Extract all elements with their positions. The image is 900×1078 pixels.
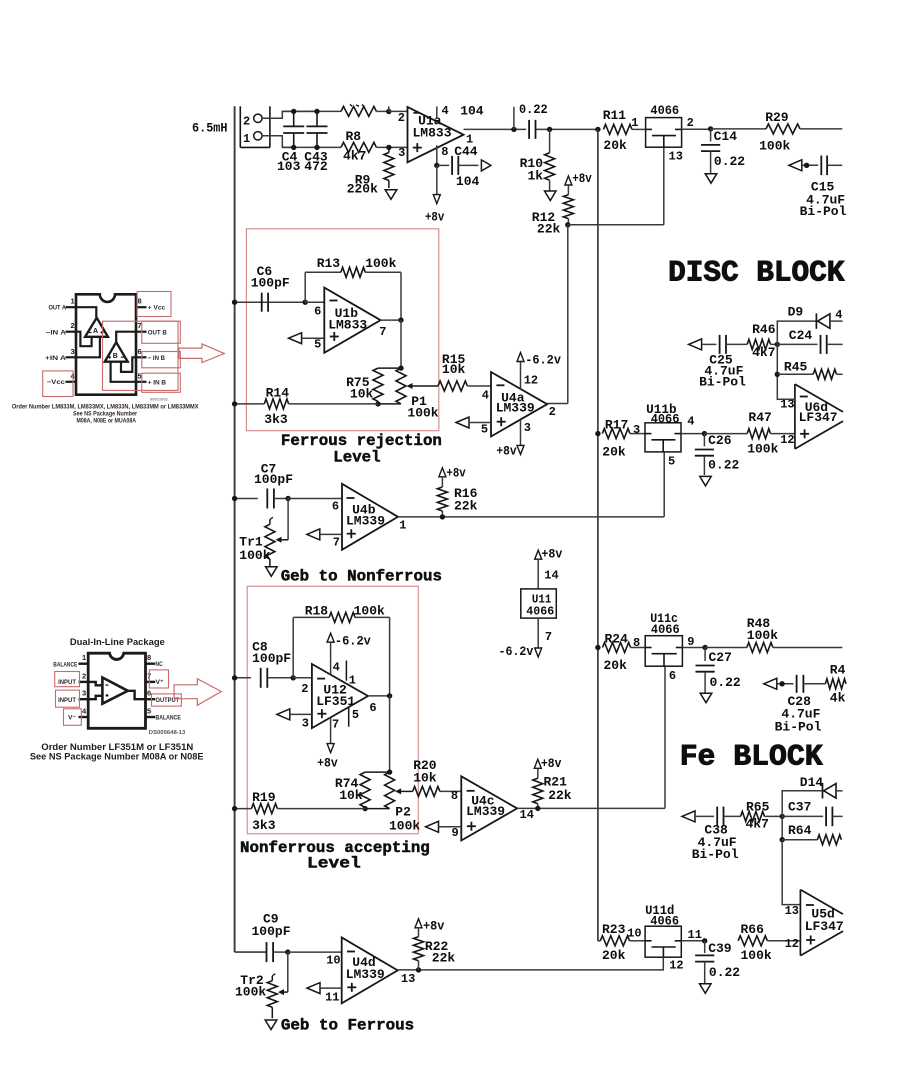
resistor R9 (347, 145, 394, 197)
svg-text:−Vᴄᴄ: −Vᴄᴄ (47, 379, 65, 386)
capacitor C9 (252, 912, 291, 963)
wire U4a output rise (547, 225, 568, 404)
resistor R11 (603, 108, 646, 153)
svg-text:100pF: 100pF (251, 275, 290, 290)
svg-text:A: A (93, 328, 98, 335)
svg-text:R29: R29 (765, 110, 789, 125)
svg-text:472: 472 (304, 159, 328, 174)
svg-text:R18: R18 (305, 604, 329, 619)
op-amp U4c (451, 776, 534, 840)
svg-text:4: 4 (442, 104, 449, 118)
capacitor C37 (782, 799, 842, 826)
resistor R15 (438, 352, 491, 391)
svg-text:1: 1 (82, 653, 86, 662)
svg-text:See NS Package Number M08A or: See NS Package Number M08A or N08E (30, 752, 204, 763)
capacitor C38 group (682, 807, 741, 862)
ground below R9 (385, 190, 397, 200)
svg-text:20k: 20k (602, 948, 626, 963)
svg-text:LM339: LM339 (346, 513, 385, 528)
svg-text:8: 8 (451, 789, 458, 803)
wire pin1 to bottom rail (262, 136, 294, 148)
trimmer Tr1 (239, 499, 288, 568)
resistor R75 (346, 368, 401, 401)
op-amp U5d (clipped) (785, 890, 844, 956)
supply -6.2v above U4a (517, 352, 561, 389)
svg-text:M08A, N08E or MUA08A: M08A, N08E or MUA08A (77, 418, 137, 425)
svg-text:Geb to Ferrous: Geb to Ferrous (281, 1016, 414, 1034)
switch U11b 4066 (645, 402, 695, 452)
IC package body LM833 (76, 294, 136, 394)
node U1a out to bus (595, 127, 600, 132)
svg-text:2: 2 (549, 405, 556, 419)
svg-text:+8v: +8v (496, 443, 516, 458)
wire U4c output (517, 807, 665, 809)
svg-text:−IN A: −IN A (46, 330, 67, 337)
svg-text:10k: 10k (442, 362, 466, 377)
svg-text:22k: 22k (454, 499, 478, 514)
wire U11a out (682, 128, 711, 130)
wire U12 output (368, 693, 392, 698)
svg-text:+8v: +8v (541, 756, 562, 771)
svg-text:5: 5 (668, 455, 675, 469)
svg-text:+8v: +8v (423, 919, 444, 934)
svg-text:LF347: LF347 (805, 919, 844, 934)
svg-text:C27: C27 (709, 650, 732, 665)
label Nonferrous accepting (240, 839, 430, 873)
svg-text:Dual-In-Line Package: Dual-In-Line Package (70, 637, 165, 648)
pin 3 left (79, 698, 89, 700)
ground below Tr1 (266, 567, 278, 577)
svg-text:D9: D9 (788, 305, 804, 320)
svg-text:22k: 22k (432, 951, 456, 966)
svg-text:100k: 100k (759, 138, 790, 153)
svg-text:4: 4 (333, 661, 340, 675)
svg-text:Order Number LM833M, LM833MX,: Order Number LM833M, LM833MX, LM833N, LM… (12, 404, 199, 411)
wire U4b out to U11b control (664, 452, 675, 517)
svg-text:BALANCE: BALANCE (53, 662, 77, 669)
pin 5 right (136, 381, 147, 383)
arrow right of C44 (481, 160, 491, 171)
wire output to P2 (387, 696, 392, 775)
annotation red arrow LF351 (174, 679, 221, 706)
svg-text:+8v: +8v (317, 755, 338, 770)
op-amp U1b (314, 288, 386, 353)
svg-text:INPUT: INPUT (58, 697, 76, 704)
annotation red box OUTPUT6 (152, 694, 182, 706)
resistor R48 (705, 616, 842, 652)
node with stub 0.22 input (511, 107, 516, 132)
svg-text:+8v: +8v (446, 465, 465, 480)
capacitor C8 (232, 640, 293, 688)
resistor R23 (598, 922, 645, 963)
svg-text:7: 7 (333, 536, 340, 550)
svg-text:100k: 100k (747, 442, 778, 457)
resistor R66 (738, 922, 800, 963)
pin 4 left (66, 381, 77, 383)
annotation red box INPUT3 (56, 690, 80, 707)
wire R12 to 4066 control (565, 147, 683, 227)
pin 2 left (79, 681, 89, 683)
capacitor C27 (696, 648, 741, 693)
wiper P1 (407, 383, 439, 389)
svg-text:LM833: LM833 (328, 318, 367, 333)
svg-text:10: 10 (627, 927, 641, 941)
svg-text:100k: 100k (239, 548, 270, 563)
wire pin2 to A minus (76, 332, 92, 347)
svg-text:C39: C39 (708, 941, 732, 956)
arrow U12 pin3 (277, 709, 312, 720)
capacitor C14 (701, 126, 745, 174)
svg-text:+8v: +8v (572, 171, 592, 186)
arrow U4b pin7 (307, 529, 342, 540)
svg-text:2: 2 (71, 321, 75, 330)
node C7 junction (285, 496, 342, 501)
capacitor 0.22 series (519, 102, 598, 139)
svg-text:BALANCE: BALANCE (156, 715, 181, 722)
wire B output to pin7 (116, 332, 136, 343)
svg-text:5: 5 (147, 707, 151, 716)
internal op-amp A (85, 318, 108, 337)
svg-text:6: 6 (147, 689, 151, 698)
svg-text:12: 12 (780, 433, 794, 447)
pin 4 left (79, 716, 89, 718)
svg-text:2: 2 (398, 111, 405, 125)
svg-text:3: 3 (302, 717, 309, 731)
svg-text:14: 14 (520, 808, 534, 822)
capacitor C43 (304, 109, 328, 174)
resistor R74 (335, 772, 390, 807)
wire U1a pin 8 (434, 145, 448, 168)
svg-text:13: 13 (669, 150, 683, 164)
pin 5 stub (348, 707, 350, 727)
svg-text:8: 8 (138, 297, 142, 306)
capacitor C28 group (764, 675, 826, 735)
internal op-amp (102, 678, 127, 704)
diode D14 (782, 775, 842, 817)
svg-text:+ IN B: + IN B (148, 379, 167, 386)
svg-text:20k: 20k (603, 138, 627, 153)
svg-text:Fe BLOCK: Fe BLOCK (680, 740, 823, 774)
svg-text:R66: R66 (741, 922, 765, 937)
svg-text:100k: 100k (747, 628, 778, 643)
svg-text:100k: 100k (407, 406, 438, 421)
svg-text:4: 4 (82, 707, 87, 716)
svg-text:4k7: 4k7 (752, 345, 775, 360)
resistor R24 (595, 631, 645, 673)
svg-text:R46: R46 (752, 322, 776, 337)
capacitor C15 group (789, 156, 847, 220)
svg-text:5: 5 (138, 371, 142, 380)
svg-text:LM339: LM339 (496, 401, 535, 416)
supply +8v below pin 8 (425, 165, 444, 224)
svg-text:LM339: LM339 (466, 804, 505, 819)
svg-text:+8v: +8v (541, 547, 562, 562)
supply -6.2v above U12 (327, 633, 371, 675)
resistor R45 (775, 344, 843, 379)
svg-text:5: 5 (352, 708, 359, 722)
svg-text:V⁻: V⁻ (68, 715, 76, 722)
svg-text:DISC BLOCK: DISC BLOCK (668, 256, 844, 290)
svg-text:100k: 100k (354, 604, 385, 619)
svg-text:LM339: LM339 (346, 967, 385, 982)
svg-text:LM833: LM833 (413, 125, 452, 140)
svg-text:4: 4 (687, 414, 694, 428)
arrow U4c pin9 (426, 821, 462, 832)
svg-text:1k: 1k (528, 169, 544, 184)
capacitor C6 (232, 264, 305, 312)
svg-text:2: 2 (301, 682, 308, 696)
wire U11d control to U4d out (419, 957, 664, 970)
resistor R65 (741, 799, 785, 831)
svg-text:R45: R45 (784, 360, 808, 375)
resistor R13 feedback (305, 256, 401, 320)
wire pin6 to B minus (121, 357, 136, 372)
pin 4 stub (436, 106, 438, 119)
potentiometer P2 (362, 772, 420, 834)
svg-text:100k: 100k (235, 984, 266, 999)
resistor R46 (747, 322, 780, 360)
supply +8v below U4a (496, 420, 524, 459)
connector J1 coil 6.5mH (240, 106, 270, 147)
svg-text:0.22: 0.22 (710, 675, 741, 690)
svg-text:OUT A: OUT A (49, 305, 67, 312)
pin 1 left (66, 306, 77, 308)
capacitor C26 (695, 433, 740, 475)
switch U11d 4066 (645, 903, 702, 972)
svg-text:0.22: 0.22 (714, 154, 745, 169)
svg-text:OUTPUT: OUTPUT (156, 697, 180, 704)
svg-text:4066: 4066 (651, 411, 680, 426)
wire pin3 to plus (88, 696, 102, 699)
annotation red box +Vcc (137, 292, 171, 317)
svg-text:12: 12 (669, 959, 683, 973)
svg-text:3: 3 (398, 146, 405, 160)
svg-text:INPUT: INPUT (58, 679, 76, 686)
wire top rail (282, 110, 341, 112)
op-amp U6d (clipped) (780, 384, 843, 449)
svg-text:4: 4 (835, 308, 842, 322)
node top-rail stub (386, 106, 407, 114)
svg-text:− IN B: − IN B (148, 355, 166, 362)
svg-text:R17: R17 (605, 418, 628, 433)
svg-text:2: 2 (687, 116, 694, 130)
wire mid bus (597, 129, 599, 941)
svg-text:LF347: LF347 (799, 410, 838, 425)
wire U1b output (381, 317, 404, 322)
wire output to pot (398, 320, 403, 371)
svg-text:7: 7 (138, 321, 142, 330)
op-amp U1a (398, 104, 473, 162)
switch U11c 4066 (645, 611, 694, 666)
pin 2 left (66, 331, 77, 333)
svg-text:1: 1 (71, 297, 75, 306)
resistor R7 (label cut off) (341, 104, 389, 116)
wire pin2 to minus (88, 682, 102, 685)
resistor R14 (232, 385, 378, 427)
svg-text:C44: C44 (454, 144, 478, 159)
svg-text:100pF: 100pF (252, 651, 291, 666)
arrow U1b pin5 (289, 333, 325, 344)
svg-text:6: 6 (332, 500, 339, 514)
pin 1 stub (345, 661, 347, 681)
annotation red box INPUT2 (55, 672, 80, 687)
capacitor C39 (695, 941, 740, 985)
svg-text:103: 103 (277, 159, 301, 174)
svg-text:V⁺: V⁺ (156, 679, 164, 686)
svg-text:4: 4 (482, 388, 489, 402)
ground below C27 (700, 693, 712, 703)
svg-text:3: 3 (71, 347, 75, 356)
svg-text:1: 1 (243, 132, 250, 146)
wire C14 to R29 (711, 128, 766, 130)
svg-text:R47: R47 (748, 410, 771, 425)
pin 7 right (146, 681, 156, 683)
svg-text:1: 1 (631, 116, 638, 130)
datasheet figure LM833 DIP (12, 292, 224, 425)
svg-text:100pF: 100pF (252, 924, 291, 939)
pin 3 left (66, 356, 77, 358)
label 6.5mH (192, 121, 228, 136)
svg-text:7: 7 (545, 630, 552, 644)
svg-text:2: 2 (82, 671, 86, 680)
wire pin2 to top rail (262, 111, 317, 118)
svg-text:R13: R13 (317, 256, 341, 271)
wire output to pin6 (128, 691, 146, 699)
resistor R64 (780, 816, 842, 844)
pin 6 right (136, 356, 147, 358)
label Fe BLOCK (680, 740, 823, 774)
resistor R49 (clipped) (825, 663, 846, 706)
capacitor C24 (777, 328, 842, 354)
svg-text:R24: R24 (605, 631, 629, 646)
svg-text:C26: C26 (708, 433, 732, 448)
svg-text:8: 8 (633, 636, 640, 650)
resistor R21 (533, 756, 572, 811)
wire U6d pin13 input (777, 374, 795, 399)
wire U11b out (681, 431, 707, 436)
annotation red box +IN B (142, 373, 181, 392)
svg-text:4k: 4k (830, 691, 846, 706)
svg-text:1: 1 (399, 518, 406, 532)
svg-text:R8: R8 (346, 129, 362, 144)
resistor R16 (437, 465, 477, 519)
svg-text:LF351: LF351 (316, 694, 355, 709)
resistor R10 (520, 127, 555, 193)
svg-text:12: 12 (785, 937, 799, 951)
svg-text:100k: 100k (741, 948, 772, 963)
capacitor C7 (232, 461, 293, 508)
svg-text:P2: P2 (395, 804, 411, 819)
diode D9 (777, 305, 842, 345)
svg-text:DS005648-13: DS005648-13 (149, 730, 186, 736)
svg-text:R64: R64 (788, 823, 812, 838)
svg-text:0.22: 0.22 (519, 102, 548, 117)
svg-text:5: 5 (314, 338, 321, 352)
svg-text:6: 6 (369, 701, 376, 715)
svg-text:7: 7 (379, 325, 386, 339)
svg-text:20k: 20k (604, 658, 628, 673)
wire U1a output (464, 128, 527, 130)
resistor R22 (414, 919, 456, 970)
svg-text:5: 5 (481, 423, 488, 437)
svg-text:Level: Level (307, 855, 361, 873)
svg-text:+ Vᴄᴄ: + Vᴄᴄ (148, 305, 166, 312)
svg-text:8: 8 (147, 653, 151, 662)
svg-text:4066: 4066 (651, 622, 680, 637)
resistor R47 (704, 410, 795, 457)
annotation red arrow (179, 344, 224, 363)
svg-text:6: 6 (669, 669, 676, 683)
svg-text:Bi-Pol: Bi-Pol (800, 204, 847, 219)
svg-text:4k7: 4k7 (746, 817, 769, 832)
resistor R20 (413, 758, 462, 796)
pin 6 right (146, 698, 156, 700)
svg-text:C24: C24 (789, 328, 813, 343)
svg-text:100pF: 100pF (254, 472, 293, 487)
svg-text:R4: R4 (830, 663, 846, 678)
svg-text:3: 3 (633, 423, 640, 437)
svg-text:6: 6 (314, 304, 321, 318)
svg-text:4066: 4066 (526, 605, 554, 619)
svg-text:7: 7 (332, 717, 339, 731)
node U1b minus input (303, 300, 325, 305)
svg-text:1: 1 (349, 674, 356, 688)
annotation red box B section (103, 321, 179, 390)
svg-text:14: 14 (544, 569, 558, 583)
annotation red box -IN B (142, 352, 181, 368)
wire U11c out (682, 645, 707, 650)
svg-text:3: 3 (82, 689, 86, 698)
switch U11a 4066 (631, 103, 694, 147)
svg-text:3: 3 (524, 421, 531, 435)
annotation red box V-4 (64, 709, 82, 726)
svg-text:Bi-Pol: Bi-Pol (699, 374, 746, 389)
IC U11 4066 power pins (499, 547, 563, 660)
svg-text:13: 13 (785, 904, 799, 918)
ground below R10 (545, 191, 557, 201)
svg-text:104: 104 (456, 174, 480, 189)
resistor R18 feedback (291, 604, 390, 696)
annotation red box OUT B (142, 321, 181, 343)
label Geb to Nonferrous (281, 567, 442, 585)
pin 7 right (136, 331, 147, 333)
annotation red box ferrous (246, 229, 438, 431)
supply +8v below U12 (317, 718, 338, 771)
label Ferrous rejection (281, 432, 442, 467)
svg-text:6: 6 (138, 347, 142, 356)
resistor R8 (341, 129, 408, 163)
capacitor C44 (437, 144, 480, 189)
resistor R12 (532, 185, 574, 236)
wire bottom rail (282, 146, 341, 148)
wire pin5 to B plus (111, 362, 136, 382)
svg-text:C37: C37 (788, 799, 811, 814)
svg-text:22k: 22k (548, 788, 572, 803)
trimmer Tr2 (235, 952, 288, 1018)
svg-text:22k: 22k (537, 221, 561, 236)
svg-text:Ferrous rejection: Ferrous rejection (281, 432, 442, 450)
wire U4d output (398, 967, 421, 972)
svg-text:R23: R23 (602, 922, 626, 937)
wire U11d out (681, 938, 707, 943)
svg-text:9: 9 (452, 826, 459, 840)
label Geb to Ferrous (281, 1016, 414, 1034)
IC package body LF351 (88, 653, 145, 728)
wire C8 to U12 (293, 677, 312, 679)
pin 8 right (136, 306, 147, 308)
svg-text:R65: R65 (746, 799, 770, 814)
ground below C14 (705, 174, 717, 184)
